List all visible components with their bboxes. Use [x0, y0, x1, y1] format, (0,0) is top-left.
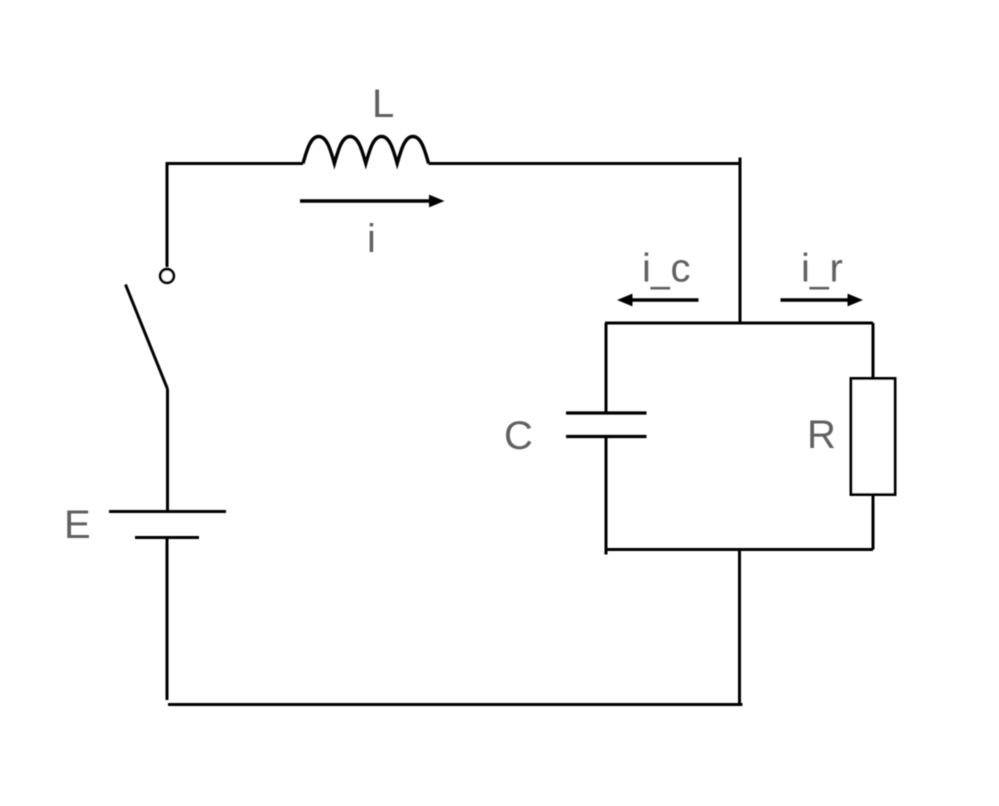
wire: bottom horizontal: [168, 703, 743, 706]
wire: middle vertical to bottom wire: [738, 550, 741, 704]
capacitor C plates: [566, 413, 647, 437]
current arrow i_r: [781, 298, 848, 302]
label i_c: [645, 253, 690, 290]
label i: [370, 223, 374, 252]
wire: capacitor bottom lead: [605, 437, 608, 555]
resistor R body: [851, 379, 895, 495]
wire: capacitor top lead: [605, 323, 608, 413]
label C: [506, 421, 531, 449]
label L: [375, 89, 393, 117]
wire: bottom bar of parallel section: [605, 548, 873, 551]
wire: resistor bottom lead: [872, 495, 875, 550]
battery E short plate: [135, 536, 199, 539]
switch blade: [126, 285, 168, 390]
inductor L: [303, 137, 429, 164]
wire: inductor to top-right corner: [429, 162, 740, 165]
wire: left vertical battery to bottom: [166, 538, 169, 701]
label R: [810, 420, 834, 448]
wire: left vertical + top horizontal to inductor: [167, 164, 303, 268]
current arrow i: [300, 199, 431, 203]
wire: right main vertical (top node down to parallel bar): [739, 158, 742, 324]
battery E long plate: [109, 510, 226, 513]
label i_r: [804, 253, 842, 290]
label E: [67, 510, 89, 538]
wire: battery top lead: [166, 389, 169, 512]
wire: resistor top lead: [872, 323, 875, 379]
wire: top bar of parallel section: [605, 322, 873, 325]
current arrow i_c: [632, 298, 699, 302]
switch contact circle: [160, 269, 174, 283]
